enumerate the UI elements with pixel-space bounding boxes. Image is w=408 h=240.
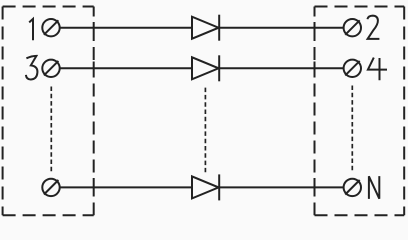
diode D1 <box>192 15 219 41</box>
wire: diode D1 cathode to terminal 2 <box>219 27 343 29</box>
terminal 4 <box>344 60 361 77</box>
pin label 3 <box>26 56 38 80</box>
wire: diode D2 cathode to terminal 4 <box>219 67 343 69</box>
terminal N <box>344 179 361 196</box>
continuation ellipsis right <box>351 86 353 173</box>
terminal 1 <box>42 19 59 36</box>
continuation ellipsis left <box>50 87 52 172</box>
wire: terminal 1 to diode D1 anode <box>60 27 192 29</box>
pin label N <box>369 176 379 199</box>
diode D2 <box>192 55 219 81</box>
pin label 1 <box>29 19 33 40</box>
right connector dashed enclosure <box>315 7 405 216</box>
terminal 2 <box>344 19 361 36</box>
left connector dashed enclosure <box>3 7 94 216</box>
wire: terminal 3 to diode D2 anode <box>60 67 192 69</box>
wire: diode Dn cathode to terminal N <box>219 186 343 188</box>
terminal 3 <box>42 60 59 77</box>
terminal bottom-left <box>42 179 59 196</box>
pin label 4 <box>368 58 387 81</box>
diode Dn <box>192 174 219 200</box>
pin label 2 <box>367 16 379 39</box>
continuation ellipsis middle <box>204 88 206 173</box>
wire: bottom-left terminal to diode Dn anode <box>60 186 192 188</box>
